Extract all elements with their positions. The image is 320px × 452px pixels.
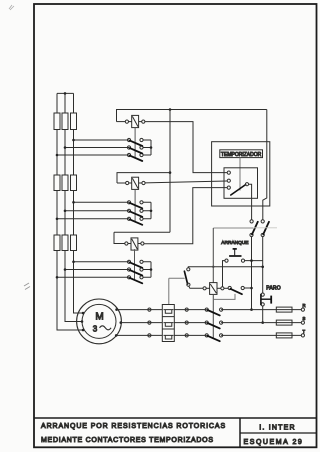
contactor K3 coil (114, 232, 144, 250)
wire tap bank2 row3 (57, 218, 129, 220)
terminal T (301, 334, 304, 337)
fuse S (276, 320, 292, 325)
wire main row S (121, 322, 301, 324)
terminal S (301, 321, 304, 324)
svg-text:TEMPORIZADOR: TEMPORIZADOR (221, 152, 262, 158)
wire tap bank3 row3 (57, 276, 129, 278)
resistor bank3 (54, 235, 77, 251)
main contactor contacts (148, 308, 223, 341)
svg-text:3: 3 (93, 325, 98, 334)
pushbutton PARO (261, 286, 281, 324)
wire timer stem (239, 158, 241, 191)
wire rotor phase u vertical (57, 93, 83, 330)
wire rotor phase w vertical (74, 93, 84, 313)
node line1 to R (250, 308, 253, 311)
svg-text:ARRANQUE: ARRANQUE (221, 240, 248, 246)
wire main row R (117, 309, 302, 311)
svg-text:ARRANQUE POR RESISTENCIAS ROTO: ARRANQUE POR RESISTENCIAS ROTORICAS (41, 423, 226, 430)
terminal R (301, 308, 304, 311)
wire tap bank1 row1 (74, 139, 130, 141)
contactor K2 coil (117, 177, 145, 189)
wire tap bank1 row3 (57, 154, 129, 156)
linkage K3 (134, 249, 136, 280)
node branch crossing (212, 266, 214, 268)
timer box TEMPORIZADOR (212, 142, 270, 206)
wire K3 coil to timer in3 (144, 188, 227, 244)
fuse R (276, 307, 292, 312)
svg-text:ESQUEMA 29: ESQUEMA 29 (244, 439, 304, 446)
wire common control vertical (169, 110, 171, 233)
wire timer out1 (249, 184, 252, 220)
wire main row T (116, 334, 301, 336)
timer contact T2 (261, 220, 269, 237)
node top wire junction (169, 108, 172, 111)
wire tap bank3 row2 (65, 269, 129, 271)
wire timer out2 (263, 110, 267, 220)
contactor K3 contacts (127, 260, 152, 283)
fuse T (276, 333, 292, 338)
contactor K1 coil (117, 115, 145, 127)
wire rotor star bus (57, 92, 74, 94)
svg-text:MEDIANTE CONTACTORES TEMPORIZA: MEDIANTE CONTACTORES TEMPORIZADOS (41, 437, 214, 444)
timer input terminals (227, 171, 230, 174)
thermal relay block (162, 305, 174, 342)
linkage thermal trip (169, 278, 185, 304)
wire control line2 (262, 237, 264, 293)
svg-text:T: T (303, 329, 306, 334)
linkage K2 (134, 189, 136, 222)
wire K2 coil to timer in2 (145, 181, 227, 183)
resistor bank1 (54, 113, 77, 130)
wire contactor3 top (114, 231, 170, 233)
thermal trip contact (184, 268, 203, 289)
contactor K2 contacts (127, 201, 152, 225)
linkage C coil (212, 294, 214, 337)
wire trip to line2 (188, 266, 262, 269)
contactor K1 contacts (127, 138, 152, 161)
wire tap bank3 row1 (74, 261, 130, 263)
wire control line1 (251, 237, 253, 310)
svg-text:S: S (303, 316, 306, 321)
pushbutton ARRANQUE (221, 240, 262, 287)
wire coil branch (213, 227, 253, 229)
node common unit2 (169, 171, 172, 174)
node line2 junction (261, 266, 264, 269)
wire K1 coil to timer in1 (145, 122, 227, 173)
svg-text:PARO: PARO (266, 286, 281, 292)
title block (34, 417, 317, 419)
contactor C coil (203, 283, 228, 295)
svg-text:R: R (303, 303, 306, 308)
node star point (64, 92, 67, 95)
svg-text:M: M (95, 312, 103, 323)
svg-text:I. INTER: I. INTER (259, 425, 295, 432)
timer contact T1 (250, 220, 258, 237)
wire contactor2 top (117, 173, 170, 183)
linkage K1 (134, 128, 136, 158)
node bank taps (56, 139, 75, 279)
motor M 3~ (77, 299, 123, 344)
wire rotor phase v vertical (65, 93, 82, 321)
wire tap bank2 row1 (74, 201, 130, 203)
wire contactor1 top (117, 110, 267, 122)
timer switch box (224, 168, 258, 199)
timer switch lever (231, 185, 246, 195)
wire tap bank1 row2 (65, 147, 129, 149)
holding contact C1 (228, 286, 253, 294)
resistor bank2 (54, 175, 77, 191)
wire tap bank2 row2 (65, 210, 129, 212)
